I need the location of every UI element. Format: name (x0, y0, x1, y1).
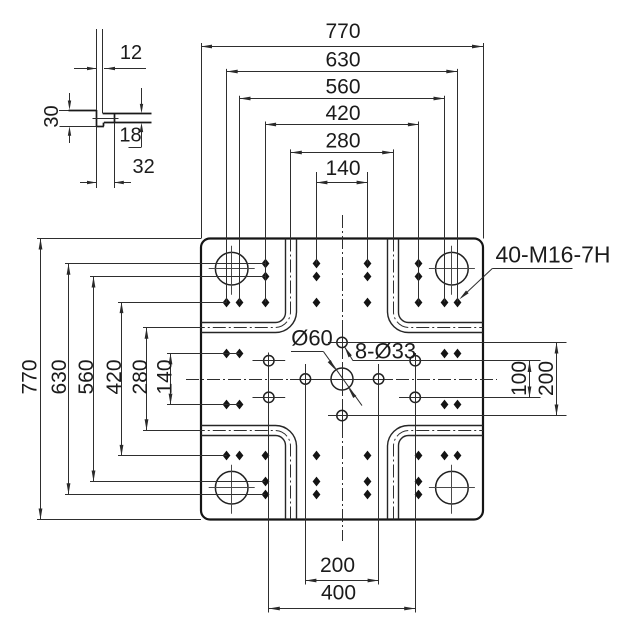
svg-text:770: 770 (19, 359, 42, 394)
dimension 140 left (170, 353, 172, 404)
extension line row -50 and 8-D33 leader line (353, 360, 541, 362)
hole D33 left-lower (264, 392, 274, 402)
M16 holes top band (262, 259, 270, 269)
dimension 280 left (146, 328, 148, 430)
M16 holes bottom band (262, 477, 270, 487)
hole D33 left-upper (264, 356, 274, 366)
crosshair right hole (364, 379, 393, 381)
hole D33 right-upper (410, 356, 420, 366)
svg-text:100: 100 (508, 361, 531, 396)
dimension 200 right (556, 342, 558, 415)
corner hole bottom-left (215, 471, 248, 504)
hole D33 right-lower (410, 392, 420, 402)
svg-text:8-Ø33: 8-Ø33 (355, 338, 416, 363)
center hole D60 (331, 368, 353, 390)
dimension 400 bottom (269, 608, 415, 610)
corner hole bottom-right (436, 471, 469, 504)
svg-text:200: 200 (320, 554, 355, 577)
svg-text:400: 400 (321, 582, 356, 605)
hole D33 left (300, 374, 310, 384)
svg-text:200: 200 (535, 361, 558, 396)
corner slot top-right (398, 239, 483, 323)
extension line row +50 (399, 397, 541, 399)
corner hole top-right (436, 252, 469, 285)
svg-text:420: 420 (103, 359, 126, 394)
tick left-lower hole (253, 397, 286, 399)
dimension 100 right (529, 361, 531, 398)
corner slot bottom-right (398, 436, 483, 520)
svg-text:32: 32 (132, 156, 154, 178)
extension line row +100 (328, 415, 567, 417)
horizontal centerline (186, 379, 497, 381)
center hole crosshair (325, 379, 359, 381)
detail extension lines (59, 110, 69, 112)
crosshair top hole (342, 328, 344, 357)
tick left-upper hole (253, 360, 286, 362)
hole D33 bottom (337, 410, 347, 420)
svg-text:560: 560 (75, 359, 98, 394)
extension line row -100 (328, 342, 567, 344)
corner slot top-left (201, 239, 286, 323)
dimension 420 left (121, 302, 123, 456)
svg-text:280: 280 (129, 359, 152, 394)
crosshair left hole (290, 379, 320, 381)
extension lines bottom 400 (268, 353, 270, 613)
dimension 770 left (40, 239, 42, 520)
svg-text:18: 18 (119, 125, 141, 147)
extension lines bottom 200 (305, 364, 307, 585)
M16 holes inner rows (262, 298, 270, 308)
crosshair bottom hole (342, 401, 344, 430)
corner slot bottom-left (201, 436, 286, 520)
detail section profile (69, 110, 97, 112)
svg-text:420: 420 (325, 102, 360, 125)
corner hole top-left (215, 252, 248, 285)
svg-text:30: 30 (41, 105, 63, 127)
dimension 140 top (316, 182, 367, 184)
svg-text:12: 12 (120, 42, 142, 64)
dimension 420 top (265, 124, 419, 126)
M16 holes right band (441, 298, 449, 308)
plate outline 770x770 (201, 239, 483, 520)
svg-text:140: 140 (154, 359, 177, 394)
svg-text:630: 630 (48, 359, 71, 394)
svg-text:40-M16-7H: 40-M16-7H (495, 241, 610, 267)
hole D33 right (373, 374, 383, 384)
vertical centerline (342, 215, 344, 541)
svg-text:140: 140 (325, 157, 360, 180)
dimension 560 left (93, 277, 95, 482)
dimension 770 top (201, 46, 483, 48)
svg-text:770: 770 (325, 20, 360, 43)
svg-text:630: 630 (325, 49, 360, 72)
dimension 630 left (68, 264, 70, 495)
svg-text:280: 280 (325, 130, 360, 153)
M16 holes left band (223, 298, 231, 308)
hole D33 top (337, 337, 347, 347)
dimension 630 top (227, 71, 458, 73)
dimension 200 bottom (305, 580, 378, 582)
dimension 280 top (291, 152, 393, 154)
svg-text:Ø60: Ø60 (291, 326, 333, 351)
svg-text:560: 560 (325, 75, 360, 98)
dimension 560 top (240, 98, 445, 100)
